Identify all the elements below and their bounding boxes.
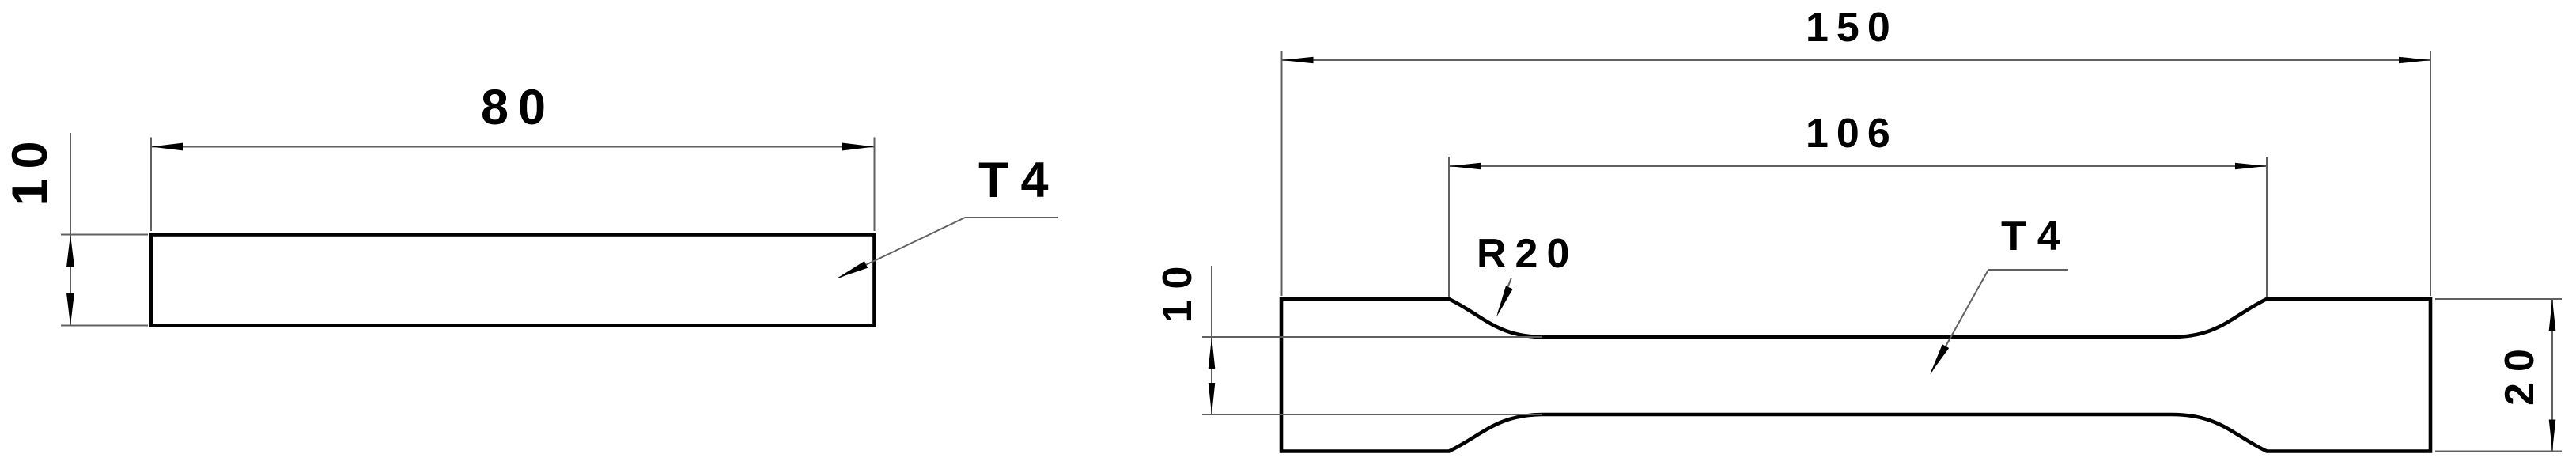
- dimension 106 left arrow: [1449, 163, 1481, 170]
- svg-text:T4: T4: [978, 153, 1061, 208]
- dimension 10 (right view) dim line: [1211, 266, 1212, 414]
- label T4 (right view) leader line: [1931, 270, 1988, 372]
- svg-text:T4: T4: [2001, 214, 2071, 259]
- label R20 leader line: [1498, 278, 1511, 313]
- svg-text:106: 106: [1806, 111, 1898, 157]
- svg-text:80: 80: [481, 80, 555, 135]
- svg-text:150: 150: [1806, 5, 1898, 51]
- left view: flat bar outline: [151, 235, 875, 326]
- label T4 (right view) leader arrow: [1927, 344, 1949, 376]
- label T4 (left view) leader line: [839, 218, 965, 278]
- dimension 20 bottom extension line: [2435, 451, 2562, 452]
- label T4 (left view) leader arrow: [835, 261, 868, 282]
- svg-text:20: 20: [2497, 338, 2543, 406]
- label T4 (right view) leader shoulder: [1988, 269, 2068, 271]
- dimension 150 left extension line: [1281, 51, 1283, 296]
- dimension 80 right arrow: [842, 143, 875, 151]
- svg-text:10: 10: [2, 131, 58, 206]
- dimension 150 right arrow: [2399, 57, 2430, 64]
- dimension 80 right extension line: [874, 138, 876, 232]
- dimension 10 (left view) dim line: [70, 133, 71, 326]
- dimension 10 (left view) top extension line: [61, 234, 148, 236]
- dimension 106 left extension line: [1448, 157, 1450, 297]
- dimension 80 left arrow: [151, 143, 183, 151]
- dimension 10 (right view) down arrow: [1209, 383, 1216, 414]
- dimension 10 (right view) top extension line: [1202, 336, 1542, 338]
- dimension 150 right extension line: [2430, 51, 2431, 296]
- svg-text:10: 10: [1155, 255, 1201, 324]
- dimension 20 up arrow: [2549, 299, 2556, 331]
- dimension 10 (left view) down arrow: [66, 293, 74, 326]
- dimension 80 left extension line: [150, 138, 152, 232]
- dimension 10 (left view) bottom extension line: [61, 325, 148, 327]
- label R20 leader arrow: [1493, 286, 1513, 318]
- dimension 20 dim line: [2551, 299, 2553, 452]
- dimension 150 left arrow: [1282, 57, 1314, 64]
- dimension 10 (left view) up arrow: [66, 235, 74, 267]
- right view: dog-bone specimen outline: [1281, 299, 2430, 452]
- dimension 106 dim line: [1449, 165, 2267, 167]
- dimension 106 right arrow: [2235, 163, 2267, 170]
- svg-text:R20: R20: [1477, 231, 1578, 277]
- dimension 10 (right view) up arrow: [1209, 337, 1216, 369]
- dimension 10 (right view) bottom extension line: [1202, 414, 1542, 415]
- dimension 80 dim line: [151, 146, 875, 148]
- dimension 20 top extension line: [2435, 298, 2562, 300]
- dimension 150 dim line: [1282, 59, 2431, 61]
- dimension 20 down arrow: [2549, 420, 2556, 452]
- dimension 106 right extension line: [2266, 157, 2268, 297]
- label T4 (left view) leader shoulder: [965, 217, 1058, 218]
